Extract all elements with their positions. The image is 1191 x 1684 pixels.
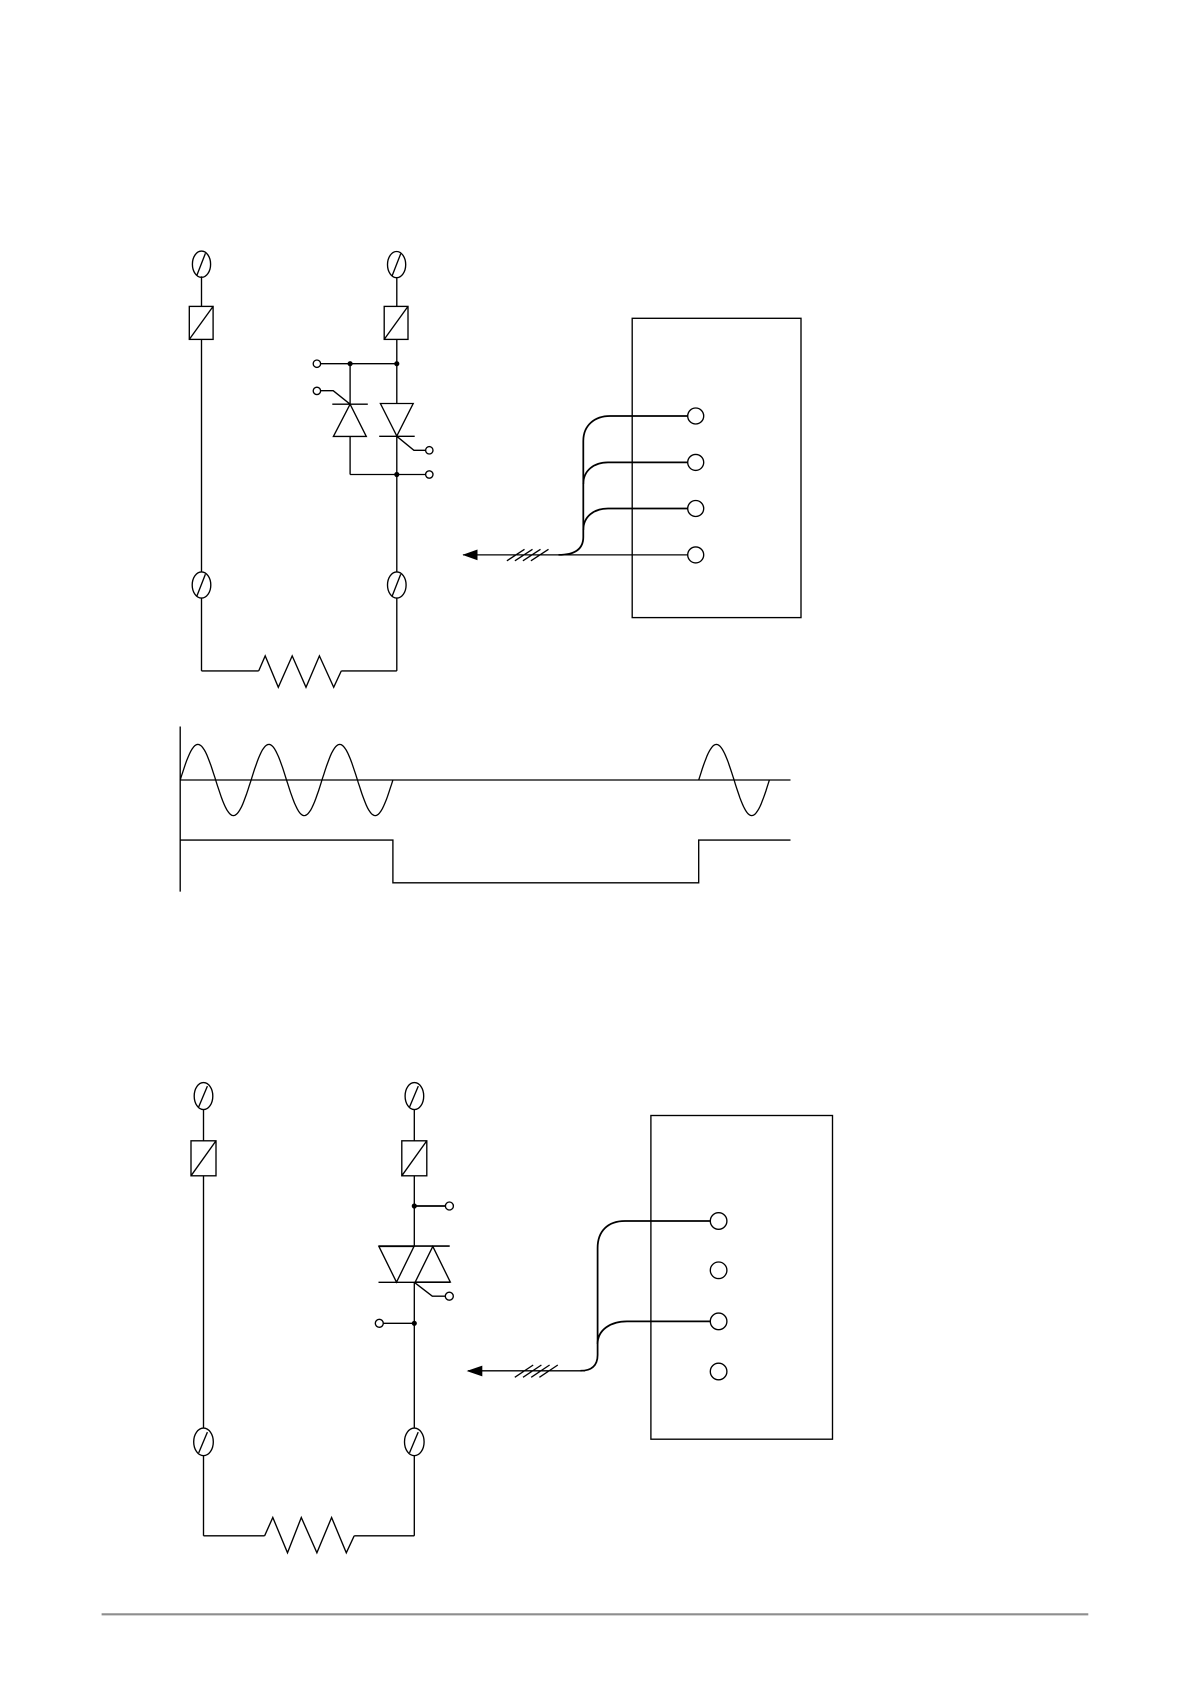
terminal MT2 (small circle) [445, 1202, 453, 1210]
fuse F3 (box with diagonal) [191, 1141, 216, 1176]
wire (bottom tie bar of SCR pair) [350, 474, 397, 476]
junction [412, 1204, 416, 1208]
wire [201, 598, 203, 671]
wire (pin 1 harness, curves into trunk) [581, 1221, 711, 1371]
wire (gate lead of triac) [414, 1282, 445, 1296]
controller module U2 (box) [651, 1116, 833, 1440]
junction [348, 362, 352, 366]
pin 2 terminal [710, 1262, 727, 1279]
AC line terminal P5 (circle with slash, top left) [194, 1083, 213, 1110]
wire (fuse to SCR pair) [396, 339, 398, 403]
pin 2 terminal [688, 454, 704, 470]
wire (left branch down) [203, 1176, 205, 1428]
gate terminal G3 (small circle) [445, 1292, 453, 1300]
controller module U1 (box) [632, 318, 801, 617]
junction [395, 362, 399, 366]
wire (bottom left to resistor) [202, 670, 259, 672]
resistor R1 (load) [259, 656, 342, 687]
wire (stub to MT2 sense terminal) [414, 1205, 445, 1207]
wire [413, 1110, 415, 1141]
AC line terminal P1 (circle with slash, top left) [192, 251, 210, 277]
wire (stub to K2) [397, 474, 426, 476]
pin 4 terminal [710, 1363, 727, 1380]
fuse F4 (box with diagonal) [402, 1141, 427, 1176]
cable slash marks [507, 549, 549, 561]
pin 1 terminal [710, 1213, 727, 1230]
junction [395, 473, 399, 477]
gate terminal G2 (small circle) [426, 447, 433, 454]
pin 3 terminal [688, 501, 704, 517]
sine burst 1 (three cycles of mains voltage) [180, 744, 393, 815]
wire (pin 2 into trunk) [583, 462, 687, 484]
pin 1 terminal [688, 408, 704, 424]
AC line terminal P2 (circle with slash, top right) [388, 252, 406, 278]
wire [413, 1456, 415, 1536]
fuse F1 (box with diagonal) [189, 306, 213, 339]
wire (to SCR1 cathode) [349, 364, 351, 405]
wire (pin 4 gate-drive line to arrow) [463, 554, 688, 556]
wire [201, 276, 203, 306]
gate-return terminal K2 (small circle) [426, 471, 433, 478]
wire (triac down) [413, 1282, 415, 1428]
terminal MT1 (small circle) [375, 1319, 383, 1327]
wire [396, 598, 398, 671]
triac Q1 [379, 1246, 451, 1282]
resistor R2 (load) [265, 1518, 355, 1553]
wire (pin 1 harness, curves into trunk) [559, 416, 688, 555]
pin 4 terminal [688, 547, 704, 563]
wire (left branch down) [201, 339, 203, 572]
load terminal P3 (circle with slash, lower left) [192, 572, 211, 598]
wire [203, 1456, 205, 1536]
wire (resistor to right branch) [354, 1535, 414, 1537]
load terminal P8 (circle with slash, lower right) [405, 1428, 425, 1456]
AC line terminal P6 (circle with slash, top right) [405, 1083, 424, 1110]
gate terminal G1 (small circle) [313, 387, 320, 394]
fuse F2 (box with diagonal) [384, 306, 408, 339]
control signal square wave [180, 840, 790, 883]
axis (time baseline) [180, 779, 790, 781]
arrow (to gate terminals) [467, 1366, 483, 1377]
wire (stub from MT1) [383, 1322, 414, 1324]
junction [412, 1321, 416, 1325]
thyristor SCR2 (cathode down) [379, 404, 415, 437]
gate-return terminal K1 (small circle) [313, 360, 320, 367]
arrow (to gate terminals) [462, 550, 477, 561]
wire (pin 3 into trunk) [583, 509, 687, 531]
wire (bottom left to resistor) [204, 1535, 265, 1537]
thyristor SCR1 (cathode up) [332, 404, 368, 436]
sine burst 2 (one cycle of mains voltage) [699, 744, 770, 815]
wire (gate lead of SCR2) [397, 436, 426, 450]
wire (gate-drive line to arrow) [468, 1370, 585, 1372]
wire (SCR1 anode down) [349, 436, 351, 474]
wire (right branch down) [396, 436, 398, 572]
wire (fuse to triac) [413, 1176, 415, 1246]
footer rule [102, 1613, 1089, 1615]
wire (top tie bar of SCR pair) [320, 363, 397, 365]
cable slash marks [515, 1365, 558, 1377]
wire (pin 3 into trunk) [598, 1321, 711, 1344]
load terminal P4 (circle with slash, lower right) [388, 572, 407, 598]
pin 3 terminal [710, 1313, 727, 1330]
axis (vertical) [179, 727, 181, 892]
wire [203, 1110, 205, 1141]
load terminal P7 (circle with slash, lower left) [194, 1428, 214, 1456]
wire [396, 277, 398, 306]
wire (resistor to right branch) [341, 670, 397, 672]
wire (gate lead of SCR1) [321, 391, 350, 405]
